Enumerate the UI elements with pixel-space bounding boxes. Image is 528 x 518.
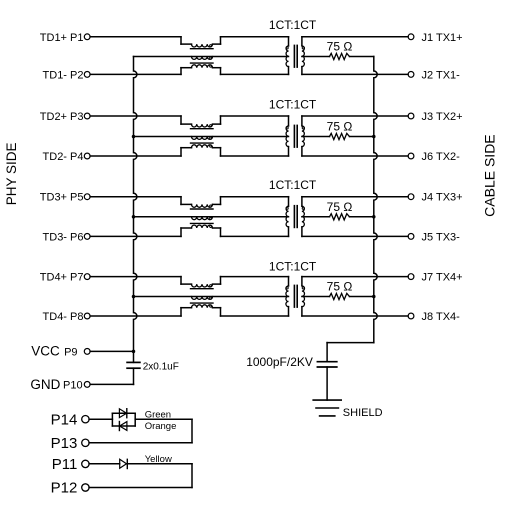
svg-text:J2 TX1-: J2 TX1- (422, 69, 461, 81)
svg-text:J8 TX4-: J8 TX4- (422, 311, 461, 323)
svg-text:P12: P12 (51, 480, 78, 497)
svg-text:J5 TX3-: J5 TX3- (422, 231, 461, 243)
svg-text:TD3+ P5: TD3+ P5 (40, 192, 84, 204)
svg-text:PHY SIDE: PHY SIDE (4, 143, 19, 206)
svg-text:TD1- P2: TD1- P2 (43, 69, 84, 81)
svg-text:P11: P11 (52, 456, 78, 473)
svg-text:P13: P13 (51, 435, 78, 452)
svg-text:1CT:1CT: 1CT:1CT (269, 18, 317, 32)
svg-text:TD4+ P7: TD4+ P7 (40, 272, 84, 284)
svg-text:VCC: VCC (31, 344, 60, 359)
svg-text:TD1+ P1: TD1+ P1 (40, 32, 84, 44)
svg-text:2x0.1uF: 2x0.1uF (143, 362, 179, 373)
svg-text:Orange: Orange (145, 421, 177, 432)
svg-text:75 Ω: 75 Ω (327, 40, 353, 54)
svg-text:J6 TX2-: J6 TX2- (422, 151, 461, 163)
svg-text:TD3- P6: TD3- P6 (43, 231, 84, 243)
svg-text:P9: P9 (64, 346, 77, 358)
svg-text:TD4- P8: TD4- P8 (43, 311, 84, 323)
svg-text:P10: P10 (63, 379, 83, 391)
svg-text:SHIELD: SHIELD (343, 407, 383, 419)
svg-text:1000pF/2KV: 1000pF/2KV (246, 355, 313, 369)
svg-text:1CT:1CT: 1CT:1CT (269, 178, 317, 192)
svg-text:75 Ω: 75 Ω (327, 200, 353, 214)
svg-text:TD2- P4: TD2- P4 (43, 151, 84, 163)
svg-text:75 Ω: 75 Ω (327, 280, 353, 294)
svg-text:P14: P14 (51, 411, 78, 428)
svg-text:75 Ω: 75 Ω (327, 120, 353, 134)
svg-text:CABLE SIDE: CABLE SIDE (481, 134, 497, 216)
svg-text:GND: GND (30, 377, 60, 392)
svg-text:J1 TX1+: J1 TX1+ (422, 32, 463, 44)
svg-text:J4 TX3+: J4 TX3+ (422, 192, 463, 204)
svg-text:TD2+ P3: TD2+ P3 (40, 111, 84, 123)
svg-text:1CT:1CT: 1CT:1CT (269, 260, 317, 274)
svg-text:Green: Green (145, 410, 171, 421)
svg-text:J7 TX4+: J7 TX4+ (422, 272, 463, 284)
svg-text:Yellow: Yellow (145, 454, 172, 465)
svg-text:1CT:1CT: 1CT:1CT (269, 97, 317, 111)
svg-text:J3 TX2+: J3 TX2+ (422, 111, 463, 123)
